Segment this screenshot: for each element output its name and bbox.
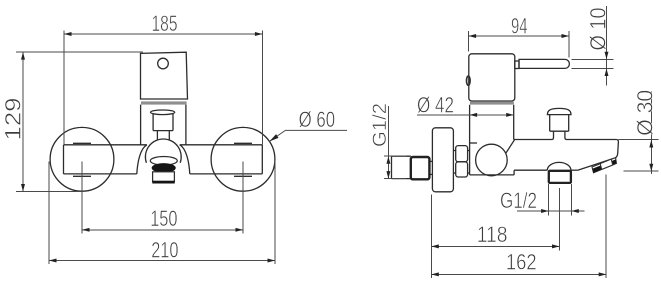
svg-text:118: 118 [477,222,508,247]
svg-text:G1/2: G1/2 [369,103,391,147]
svg-text:G1/2: G1/2 [500,188,537,213]
svg-text:150: 150 [150,206,177,231]
svg-text:94: 94 [511,14,528,39]
svg-text:129: 129 [1,98,26,141]
svg-text:Ø 30: Ø 30 [633,90,658,136]
svg-text:185: 185 [152,11,178,36]
svg-text:Ø 60: Ø 60 [299,107,336,132]
svg-text:Ø 42: Ø 42 [417,92,454,117]
svg-text:162: 162 [506,250,537,275]
svg-text:210: 210 [151,238,178,263]
svg-text:Ø 10: Ø 10 [586,8,611,51]
